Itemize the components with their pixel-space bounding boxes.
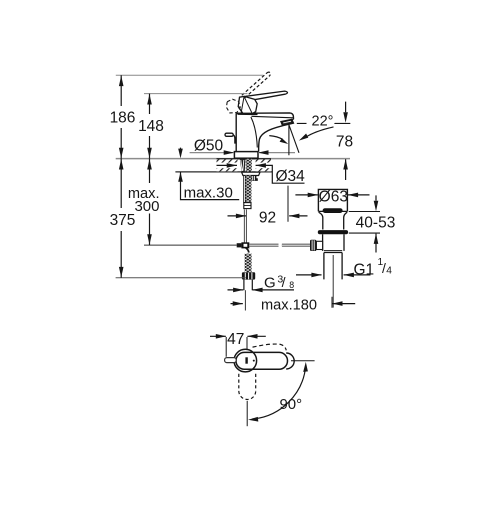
22 degree left arc arrow	[269, 136, 282, 140]
hose end stub	[244, 280, 252, 291]
dim G3/8 line	[228, 289, 295, 291]
dim 92 line	[228, 215, 308, 217]
waste body	[323, 234, 344, 251]
40-53 extension lines	[349, 212, 380, 234]
faucet body column left edge	[235, 113, 237, 151]
dim 186 extension line top	[116, 74, 263, 76]
counter cut section top edge	[217, 158, 272, 160]
spout underside line	[292, 118, 294, 121]
svg-text:78: 78	[336, 134, 353, 151]
plan view: lever capsule	[236, 352, 288, 369]
supply hose braided section lower	[245, 254, 252, 273]
svg-text:/: /	[282, 274, 286, 290]
counter hatch left of faucet hole	[217, 159, 238, 171]
svg-text:90°: 90°	[279, 396, 302, 413]
spout under-sweep curve to body	[259, 126, 283, 152]
svg-text:G1: G1	[354, 261, 375, 278]
47 extension lines	[226, 337, 247, 357]
dim 186 line	[120, 75, 122, 158]
knob connector block	[316, 241, 322, 249]
dim 78 extension line	[334, 123, 350, 125]
svg-text:47: 47	[227, 331, 244, 348]
22 degree label shelf line	[297, 122, 350, 124]
lever/head joint thick line	[238, 112, 258, 115]
extension line to pop-up rod (from max.300)	[144, 244, 237, 246]
horizontal pop-up rod left segment	[249, 244, 278, 247]
horizontal pop-up rod right segment	[282, 244, 310, 247]
body inner curve	[251, 117, 257, 148]
dim O63 line	[295, 194, 369, 196]
counter top surface line	[116, 158, 350, 160]
G3/8 connector nut	[242, 272, 255, 279]
svg-text:Ø34: Ø34	[276, 168, 306, 185]
lever boss	[238, 96, 257, 113]
waste center line	[332, 255, 334, 308]
plan view: small dot	[253, 360, 255, 362]
dim 40-53 line	[375, 195, 377, 252]
dim 148 extension line	[144, 93, 248, 95]
dim max30 arrows and label box	[181, 148, 240, 200]
svg-text:4: 4	[386, 266, 392, 277]
raised lever dashed outline	[242, 72, 271, 98]
rod hook below block	[246, 248, 249, 253]
waste knurled knob	[310, 240, 316, 251]
counter hatch right of faucet hole	[256, 159, 271, 171]
faucet head top	[236, 113, 293, 119]
dim 148 line	[149, 94, 151, 159]
svg-text:148: 148	[138, 118, 164, 135]
hose collar	[244, 203, 251, 209]
plan view: capsule outer end arc	[286, 353, 294, 369]
dim 375 line	[120, 159, 122, 278]
90 degree arc	[252, 365, 306, 419]
plan view: 47 dimension	[210, 335, 266, 337]
mounting nut	[251, 176, 258, 181]
waste plug	[323, 208, 343, 213]
svg-text:G: G	[264, 275, 276, 292]
svg-text:Ø50: Ø50	[194, 138, 224, 155]
dim max180 line	[231, 303, 356, 305]
white halo for hole dimension arrows	[216, 163, 238, 169]
svg-text:8: 8	[289, 280, 294, 290]
aerator at 22 degrees	[281, 120, 293, 126]
waste o-ring flange	[318, 230, 348, 234]
raised lever boss dashed ghost	[226, 99, 240, 113]
dim 78 line	[345, 102, 347, 180]
faucet head seam line	[252, 116, 294, 118]
90 degree extension line	[291, 360, 315, 362]
22 degree vertex legs	[289, 125, 299, 156]
seal wedge in counter hole	[240, 159, 246, 171]
plan view: dashed lever rotated down	[239, 374, 256, 400]
plan view: center line below	[246, 401, 248, 426]
hose end extension line	[244, 290, 246, 310]
pop-up waste top cylinder	[318, 189, 347, 211]
rod crossing block	[241, 242, 249, 248]
svg-text:300: 300	[134, 198, 159, 215]
dim 375 extension line bottom	[116, 277, 246, 279]
svg-text:375: 375	[110, 212, 136, 229]
waste body bottom joint	[324, 251, 342, 253]
svg-text:40-53: 40-53	[356, 214, 396, 231]
faucet pull-rod knob behind body	[225, 133, 233, 136]
counter bottom line	[175, 171, 272, 173]
svg-text:max.30: max.30	[184, 184, 233, 201]
waste funnel neck	[318, 211, 347, 229]
dim O50 line	[190, 152, 295, 154]
plan view: pivot tick	[245, 357, 247, 363]
threaded shank braid through counter	[246, 159, 252, 172]
mounting washer below counter	[242, 172, 260, 175]
plan view: lever tip tab	[225, 358, 237, 363]
svg-text:max.180: max.180	[261, 297, 317, 313]
svg-text:92: 92	[259, 209, 276, 226]
rod ferrule	[237, 243, 242, 247]
plan view: faucet base circle	[234, 349, 257, 372]
svg-text:186: 186	[110, 110, 136, 127]
dim max300 line	[149, 159, 151, 246]
svg-text:Ø63: Ø63	[319, 188, 348, 205]
lever boss facet lines	[241, 97, 252, 113]
pop-up pull rod vertical	[244, 209, 247, 242]
supply hose braided section upper	[244, 176, 246, 203]
faucet base plinth on counter	[234, 152, 258, 159]
dim G1 1/4 line	[296, 274, 371, 276]
max180 extension line	[331, 297, 333, 308]
22 degree right arc arrow	[306, 127, 334, 137]
waste tailpipe	[324, 253, 342, 280]
lever blade	[244, 91, 288, 100]
dim hole O34 line with label leader	[217, 165, 305, 183]
plan view: dashed swing envelope arc	[253, 344, 287, 350]
92 extension line	[287, 186, 289, 222]
